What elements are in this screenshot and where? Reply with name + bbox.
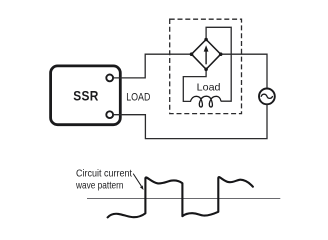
wire: detector right vertex to AC source top <box>221 54 267 88</box>
junction dot: detector top vertex <box>204 38 208 42</box>
AC source G1 (circle) <box>259 89 275 105</box>
svg-text:LOAD: LOAD <box>126 91 150 103</box>
junction dot: detector left vertex <box>190 52 194 56</box>
load inductor L1 (coil) <box>190 96 221 107</box>
AC source sine symbol <box>261 94 273 98</box>
wire: SSR top terminal up to detector (left vertex) <box>113 54 191 78</box>
svg-text:wave pattern: wave pattern <box>75 180 123 191</box>
wire: detector bottom vertex down-left to load left side <box>183 69 206 101</box>
leader arrow from label to waveform <box>133 174 141 187</box>
wire: AC source bottom, return line to SSR bottom terminal <box>113 104 267 138</box>
svg-text:Circuit current: Circuit current <box>76 168 132 179</box>
svg-text:SSR: SSR <box>73 88 99 104</box>
wire: bypass from detector top vertex over and down to load right side <box>206 27 231 101</box>
current detector D1 (diamond) <box>192 40 221 70</box>
waveform time axis <box>87 197 280 199</box>
terminal circle: SSR top output <box>106 75 113 82</box>
SSR relay body U1 <box>51 66 121 125</box>
dashed detector enclosure <box>170 19 242 113</box>
terminal circle: SSR bottom output <box>106 111 113 118</box>
circuit current waveform trace <box>108 177 253 217</box>
junction dot: detector right vertex <box>219 52 223 56</box>
svg-text:Load: Load <box>197 81 221 93</box>
junction dot: detector bottom vertex <box>204 68 208 72</box>
arrow inside detector (upward) <box>205 50 207 65</box>
